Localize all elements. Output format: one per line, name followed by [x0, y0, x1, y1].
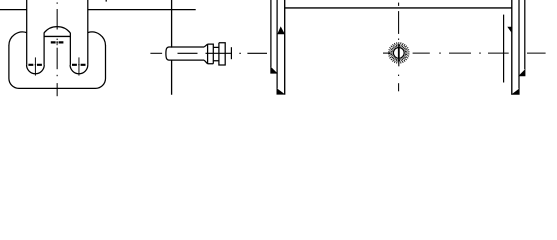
- node right flange outer line: [524, 0, 526, 69]
- node knurled hub radial hatch: [388, 42, 409, 64]
- pin P1 body outline: [166, 47, 204, 60]
- node body outline rounded rectangle: [9, 45, 106, 88]
- node short tick after pin: [230, 47, 232, 59]
- node right flange inner line: [511, 0, 513, 95]
- node right flange middle line: [518, 0, 520, 89]
- node right view top line: [285, 7, 512, 9]
- node right flange top chamfer wedge: [507, 27, 512, 34]
- node hole left bottom arc: [27, 65, 45, 74]
- node left view vertical centerline: [56, 2, 58, 96]
- pin P1 groove: [213, 47, 219, 60]
- wire right view vertical centerline: [398, 3, 400, 92]
- node knurled hub inner circle: [393, 48, 404, 59]
- wire horizontal edge line left segment: [0, 9, 27, 11]
- node hole right centerline vertical: [78, 57, 80, 75]
- node left flange middle line: [276, 0, 278, 89]
- node left-view inner line B: [69, 33, 71, 65]
- node boss spring line: [44, 35, 71, 37]
- node hole left center mark: [28, 64, 42, 66]
- pin P1 chamfer edges: [204, 44, 207, 64]
- node right ear fillet arc: [88, 32, 106, 46]
- node boss center mark: [51, 41, 64, 43]
- node knurled hub center bar: [398, 44, 400, 66]
- node left ear fillet arc: [9, 32, 27, 46]
- node left flange chamfer wedge 2: [277, 88, 286, 95]
- wire right view horizontal centerline: [383, 52, 546, 54]
- node left-view inner line A: [43, 33, 45, 65]
- node hole right bottom arc: [70, 65, 88, 74]
- node right flange chamfer wedge 1: [518, 69, 525, 76]
- wire vertical projection line through pin: [171, 0, 173, 95]
- node left flange chamfer wedge 1: [270, 66, 278, 73]
- node hole right center mark: [72, 64, 86, 66]
- pin P1 end ring: [219, 43, 225, 65]
- wire horizontal edge line right segment: [88, 9, 196, 11]
- pin P1 collar: [208, 44, 214, 64]
- node left-view neck right line: [87, 0, 89, 65]
- node left-view neck left line: [26, 0, 28, 65]
- node left flange top chamfer wedge: [277, 26, 285, 34]
- wire pin horizontal centerline: [150, 52, 267, 54]
- node right flange chamfer wedge 2: [511, 88, 520, 95]
- node left flange outer line: [270, 0, 272, 67]
- node left flange inner line: [284, 0, 286, 95]
- node boss dome arc: [44, 27, 71, 33]
- tick stub top edge: [105, 0, 107, 2]
- node hole left centerline vertical: [34, 57, 36, 75]
- node right short inner line: [503, 15, 505, 83]
